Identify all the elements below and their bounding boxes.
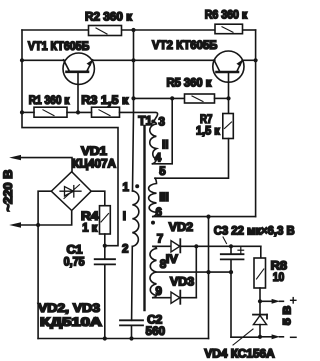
svg-text:II: II: [162, 139, 168, 152]
wire VT2 right: [242, 59, 255, 61]
node junction output minus: [258, 335, 262, 339]
terminal input arrow upper: [9, 155, 21, 160]
diode VD2: [171, 239, 261, 252]
node junction top center: [131, 28, 135, 32]
winding II: [150, 98, 172, 163]
node junction C3 top: [229, 244, 233, 248]
node junction C1 bottom: [103, 336, 107, 340]
label VD4 leader: [233, 329, 253, 345]
svg-text:C1: C1: [67, 243, 84, 256]
node junction VD2 cathode: [194, 244, 198, 248]
svg-text:R1 360 к: R1 360 к: [29, 94, 70, 107]
label plus: [291, 298, 296, 303]
winding IV: [150, 246, 231, 297]
terminal output plus arrow: [260, 299, 283, 304]
resistor R2: [89, 26, 122, 36]
node winding IV phase dot: [151, 221, 155, 225]
svg-text:VT2 КТ605Б: VT2 КТ605Б: [152, 38, 218, 52]
node junction common tap: [206, 270, 210, 274]
resistor R3: [92, 107, 120, 117]
wire VT1 emitter to VT2: [92, 59, 215, 61]
svg-text:5: 5: [159, 165, 166, 178]
node junction right rail VT2: [254, 58, 258, 62]
bridge VD1: [51, 172, 91, 211]
terminal output minus arrow: [260, 334, 283, 339]
wire bottom rail: [38, 338, 208, 340]
resistor R5: [134, 94, 229, 103]
resistor R7: [223, 114, 234, 139]
wire pin6 common: [153, 216, 256, 218]
svg-text:3: 3: [159, 115, 166, 128]
resistor R8: [254, 246, 266, 301]
svg-text:2: 2: [122, 243, 128, 256]
wire common vertical: [208, 217, 210, 339]
svg-text:КЦ407А: КЦ407А: [72, 157, 116, 170]
resistor R1: [34, 107, 67, 117]
wire top rail middle: [122, 29, 216, 31]
svg-text:VD4 КС156А: VD4 КС156А: [204, 348, 275, 361]
svg-text:R2 360 к: R2 360 к: [85, 10, 133, 24]
svg-text:1: 1: [123, 181, 130, 194]
svg-text:VD2: VD2: [169, 221, 193, 234]
node junction C2 bottom: [129, 336, 133, 340]
svg-text:R6 360 к: R6 360 к: [205, 8, 248, 21]
node pin 3 dot: [151, 120, 155, 124]
wire R1 row: [22, 112, 158, 120]
resistor R4: [100, 206, 111, 260]
svg-text:Т1: Т1: [138, 114, 152, 128]
winding I: [132, 191, 139, 320]
node junction center rail emitter: [131, 58, 135, 62]
resistor R6: [215, 24, 243, 34]
svg-text:R3 1,5 к: R3 1,5 к: [81, 93, 129, 107]
capacitor C2: [120, 320, 143, 338]
wire bridge minus drop: [38, 191, 51, 338]
capacitor C1: [95, 259, 115, 338]
svg-text:0,75: 0,75: [64, 255, 86, 268]
svg-text:R5 360 к: R5 360 к: [167, 76, 212, 89]
wire right rail: [255, 30, 257, 217]
svg-text:~220 В: ~220 В: [2, 170, 15, 212]
svg-text:1,5 к: 1,5 к: [196, 124, 220, 137]
node junction winding II return: [170, 96, 174, 100]
winding III: [149, 178, 157, 216]
wire top rail left: [22, 29, 89, 31]
node junction C3 tap: [229, 270, 233, 274]
svg-text:4: 4: [155, 152, 162, 165]
wire VT1 collector: [22, 59, 65, 61]
wire bridge plus to R4: [91, 191, 105, 206]
svg-text:С3 22 мк×6,3 В: С3 22 мк×6,3 В: [214, 224, 295, 237]
node junction R5 rail: [131, 96, 135, 100]
node junction output plus: [258, 299, 262, 303]
svg-text:8: 8: [160, 258, 167, 271]
diode VD4 zener: [253, 301, 267, 337]
wire bridge bottom input: [21, 211, 72, 226]
transformer T1 core: [143, 126, 145, 310]
svg-text:VT1 КТ605Б: VT1 КТ605Б: [28, 39, 90, 53]
capacitor C3: [221, 246, 260, 337]
node junction pin6 common vertical: [206, 215, 210, 219]
terminal input arrow lower: [9, 222, 21, 227]
svg-text:VD3: VD3: [170, 276, 195, 289]
wire VD2 to VD3 cathode link: [195, 246, 197, 297]
node junction VT2 base R5: [226, 96, 230, 100]
svg-text:VD1: VD1: [81, 145, 108, 158]
transistor VT1: [63, 53, 94, 112]
wire center rail: [133, 30, 134, 191]
label C3 leader: [223, 237, 227, 244]
node junction left rail collector: [20, 58, 24, 62]
svg-text:КД510А: КД510А: [40, 316, 103, 329]
label minus: [291, 336, 296, 338]
wire bridge top input: [21, 158, 73, 172]
transistor VT2: [213, 51, 244, 114]
svg-text:IV: IV: [166, 253, 178, 266]
svg-text:III: III: [159, 191, 169, 204]
wire top rail right: [243, 29, 256, 31]
node junction lower input: [36, 223, 40, 227]
node junction R4 bottom: [103, 244, 107, 248]
node junction VT1 base: [76, 110, 80, 114]
wire left rail: [22, 30, 118, 246]
svg-text:10: 10: [273, 271, 285, 284]
node junction R1 left: [20, 110, 24, 114]
svg-text:560: 560: [146, 325, 165, 338]
node winding I phase dot: [135, 184, 139, 188]
wire R7 bottom to winding III top: [155, 139, 229, 179]
svg-text:5 В: 5 В: [282, 305, 294, 325]
svg-text:9: 9: [156, 285, 163, 298]
svg-text:7: 7: [157, 232, 163, 245]
svg-text:1 к: 1 к: [82, 222, 97, 235]
svg-text:VD2, VD3: VD2, VD3: [38, 302, 101, 315]
diode VD3: [171, 291, 196, 304]
svg-text:I: I: [123, 210, 126, 223]
